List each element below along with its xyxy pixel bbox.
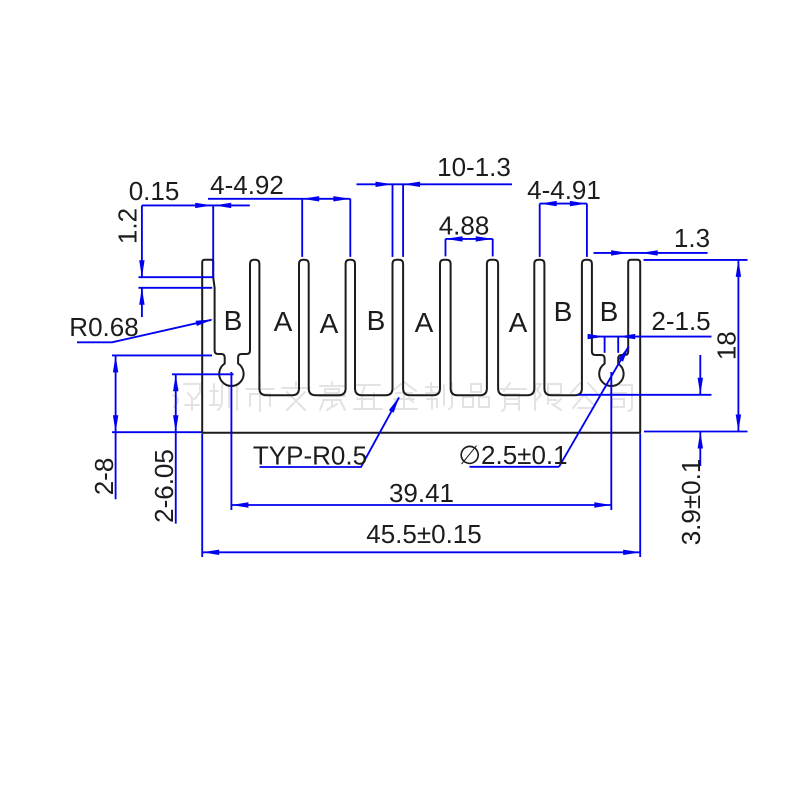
svg-text:39.41: 39.41 [389, 478, 454, 508]
svg-text:4-4.92: 4-4.92 [210, 170, 284, 200]
45.5 arrows [202, 550, 219, 555]
ext 45.5 right [639, 434, 641, 557]
svg-text:2-8: 2-8 [89, 458, 119, 496]
svg-text:4-4.91: 4-4.91 [527, 175, 601, 205]
svg-text:10-1.3: 10-1.3 [437, 152, 511, 182]
ext 18 top [644, 259, 748, 261]
svg-text:0.15: 0.15 [129, 176, 180, 206]
ext 4-4.92 left [301, 199, 303, 257]
圳 [210, 384, 237, 410]
underline dia2.5 [470, 466, 560, 468]
dimension texts [69, 152, 741, 549]
dim 18 vertical [737, 260, 739, 432]
svg-text:2-6.05: 2-6.05 [149, 449, 179, 523]
dim 3.9 vertical lower [699, 432, 701, 467]
ext 4-4.91 left [539, 204, 541, 257]
svg-text:∅2.5±0.1: ∅2.5±0.1 [458, 440, 567, 470]
svg-text:A: A [274, 306, 293, 337]
blue dimensions [77, 184, 748, 557]
svg-text:2-1.5: 2-1.5 [651, 306, 710, 336]
4.88 arrows [446, 236, 463, 241]
金 [391, 382, 417, 409]
3.9 arrows [698, 378, 703, 395]
dim 39.41 line [231, 504, 611, 506]
10-1.3 arrows [376, 182, 393, 187]
ext base-bottom left ref [112, 431, 202, 433]
svg-text:18: 18 [712, 331, 742, 360]
dia2.5 leader arrow [618, 346, 629, 362]
文 [282, 382, 310, 410]
leader dia2.5 [559, 347, 629, 467]
ext 2-6.05 center ref [172, 373, 234, 375]
1.2 arrows [139, 260, 144, 277]
svg-text:4.88: 4.88 [439, 211, 490, 241]
公 [571, 383, 597, 408]
ext 3.9 top ref [578, 394, 712, 396]
dim 2-1.5 line [589, 336, 712, 338]
品 [463, 384, 489, 407]
centerline left hole [230, 372, 232, 510]
leader R0.68 [77, 320, 212, 343]
ref line lower [139, 287, 213, 289]
dim 2-6.05 vertical [175, 374, 177, 523]
豪 [319, 382, 345, 410]
svg-text:B: B [600, 296, 619, 327]
4-4.92 arrows [302, 196, 319, 201]
centerline right hole [610, 372, 612, 510]
dim 1.2 vertical bottom [141, 288, 143, 317]
ext 10-1.3 right [402, 184, 404, 257]
ext 18 bottom [644, 431, 748, 433]
18 arrows [736, 260, 741, 277]
市 [246, 383, 274, 411]
svg-text:B: B [367, 305, 386, 336]
dim 3.9 vertical upper [699, 355, 701, 395]
svg-text:1.2: 1.2 [113, 208, 143, 244]
watermark [173, 382, 632, 411]
svg-text:1.3: 1.3 [674, 223, 710, 253]
dim 4.88 line [446, 238, 493, 240]
深 [173, 384, 200, 410]
svg-text:A: A [320, 308, 339, 339]
dim 1.3 line [594, 252, 708, 254]
svg-text:TYP-R0.5: TYP-R0.5 [253, 441, 367, 471]
dim 4-4.92 line [208, 198, 350, 200]
dim 1.2 vertical top [141, 205, 143, 277]
ref line upper [139, 276, 214, 278]
svg-text:A: A [415, 307, 434, 338]
2-8 arrows [113, 355, 118, 372]
ext 2-8 step ref [112, 354, 212, 356]
svg-text:A: A [509, 307, 528, 338]
五 [354, 385, 382, 409]
svg-text:3.9±0.1: 3.9±0.1 [676, 459, 706, 546]
司 [608, 385, 632, 411]
leader TYP-R0.5 [260, 398, 400, 468]
ext 10-1.3 left [392, 184, 394, 257]
R0.68 arrow [196, 320, 213, 327]
svg-text:B: B [224, 305, 243, 336]
dim 10-1.3 line [357, 183, 513, 185]
fin labels [224, 296, 619, 339]
1.3 arrows [611, 250, 628, 255]
dim 45.5 line [202, 551, 640, 553]
TYP-R0.5 arrow [389, 397, 400, 413]
dim 2-8 vertical [115, 355, 117, 499]
arrowheads [113, 182, 741, 555]
ext 4.88 right [492, 239, 494, 257]
ext 4-4.92 right [349, 199, 351, 257]
dim 0.15 line [142, 204, 250, 206]
0.15 arrows [195, 203, 212, 208]
ext 4.88 left [445, 239, 447, 257]
ext 45.5 left [201, 434, 203, 557]
dim 4-4.91 line [540, 203, 587, 205]
heatsink profile outline [202, 260, 640, 433]
39.41 arrows [231, 502, 248, 507]
2-6.05 arrows [173, 374, 178, 391]
ext 2-1.5 left [604, 337, 606, 353]
ext 0.15 vertical [212, 205, 214, 278]
svg-text:R0.68: R0.68 [69, 312, 138, 342]
4-4.91 arrows [540, 201, 557, 206]
svg-text:45.5±0.15: 45.5±0.15 [366, 519, 481, 549]
ext 2-1.5 right [617, 337, 619, 353]
2-1.5 arrows [588, 334, 605, 339]
限 [535, 384, 561, 410]
svg-text:B: B [554, 296, 573, 327]
制 [426, 383, 452, 409]
有 [498, 383, 526, 411]
ext 4-4.91 right [586, 204, 588, 257]
